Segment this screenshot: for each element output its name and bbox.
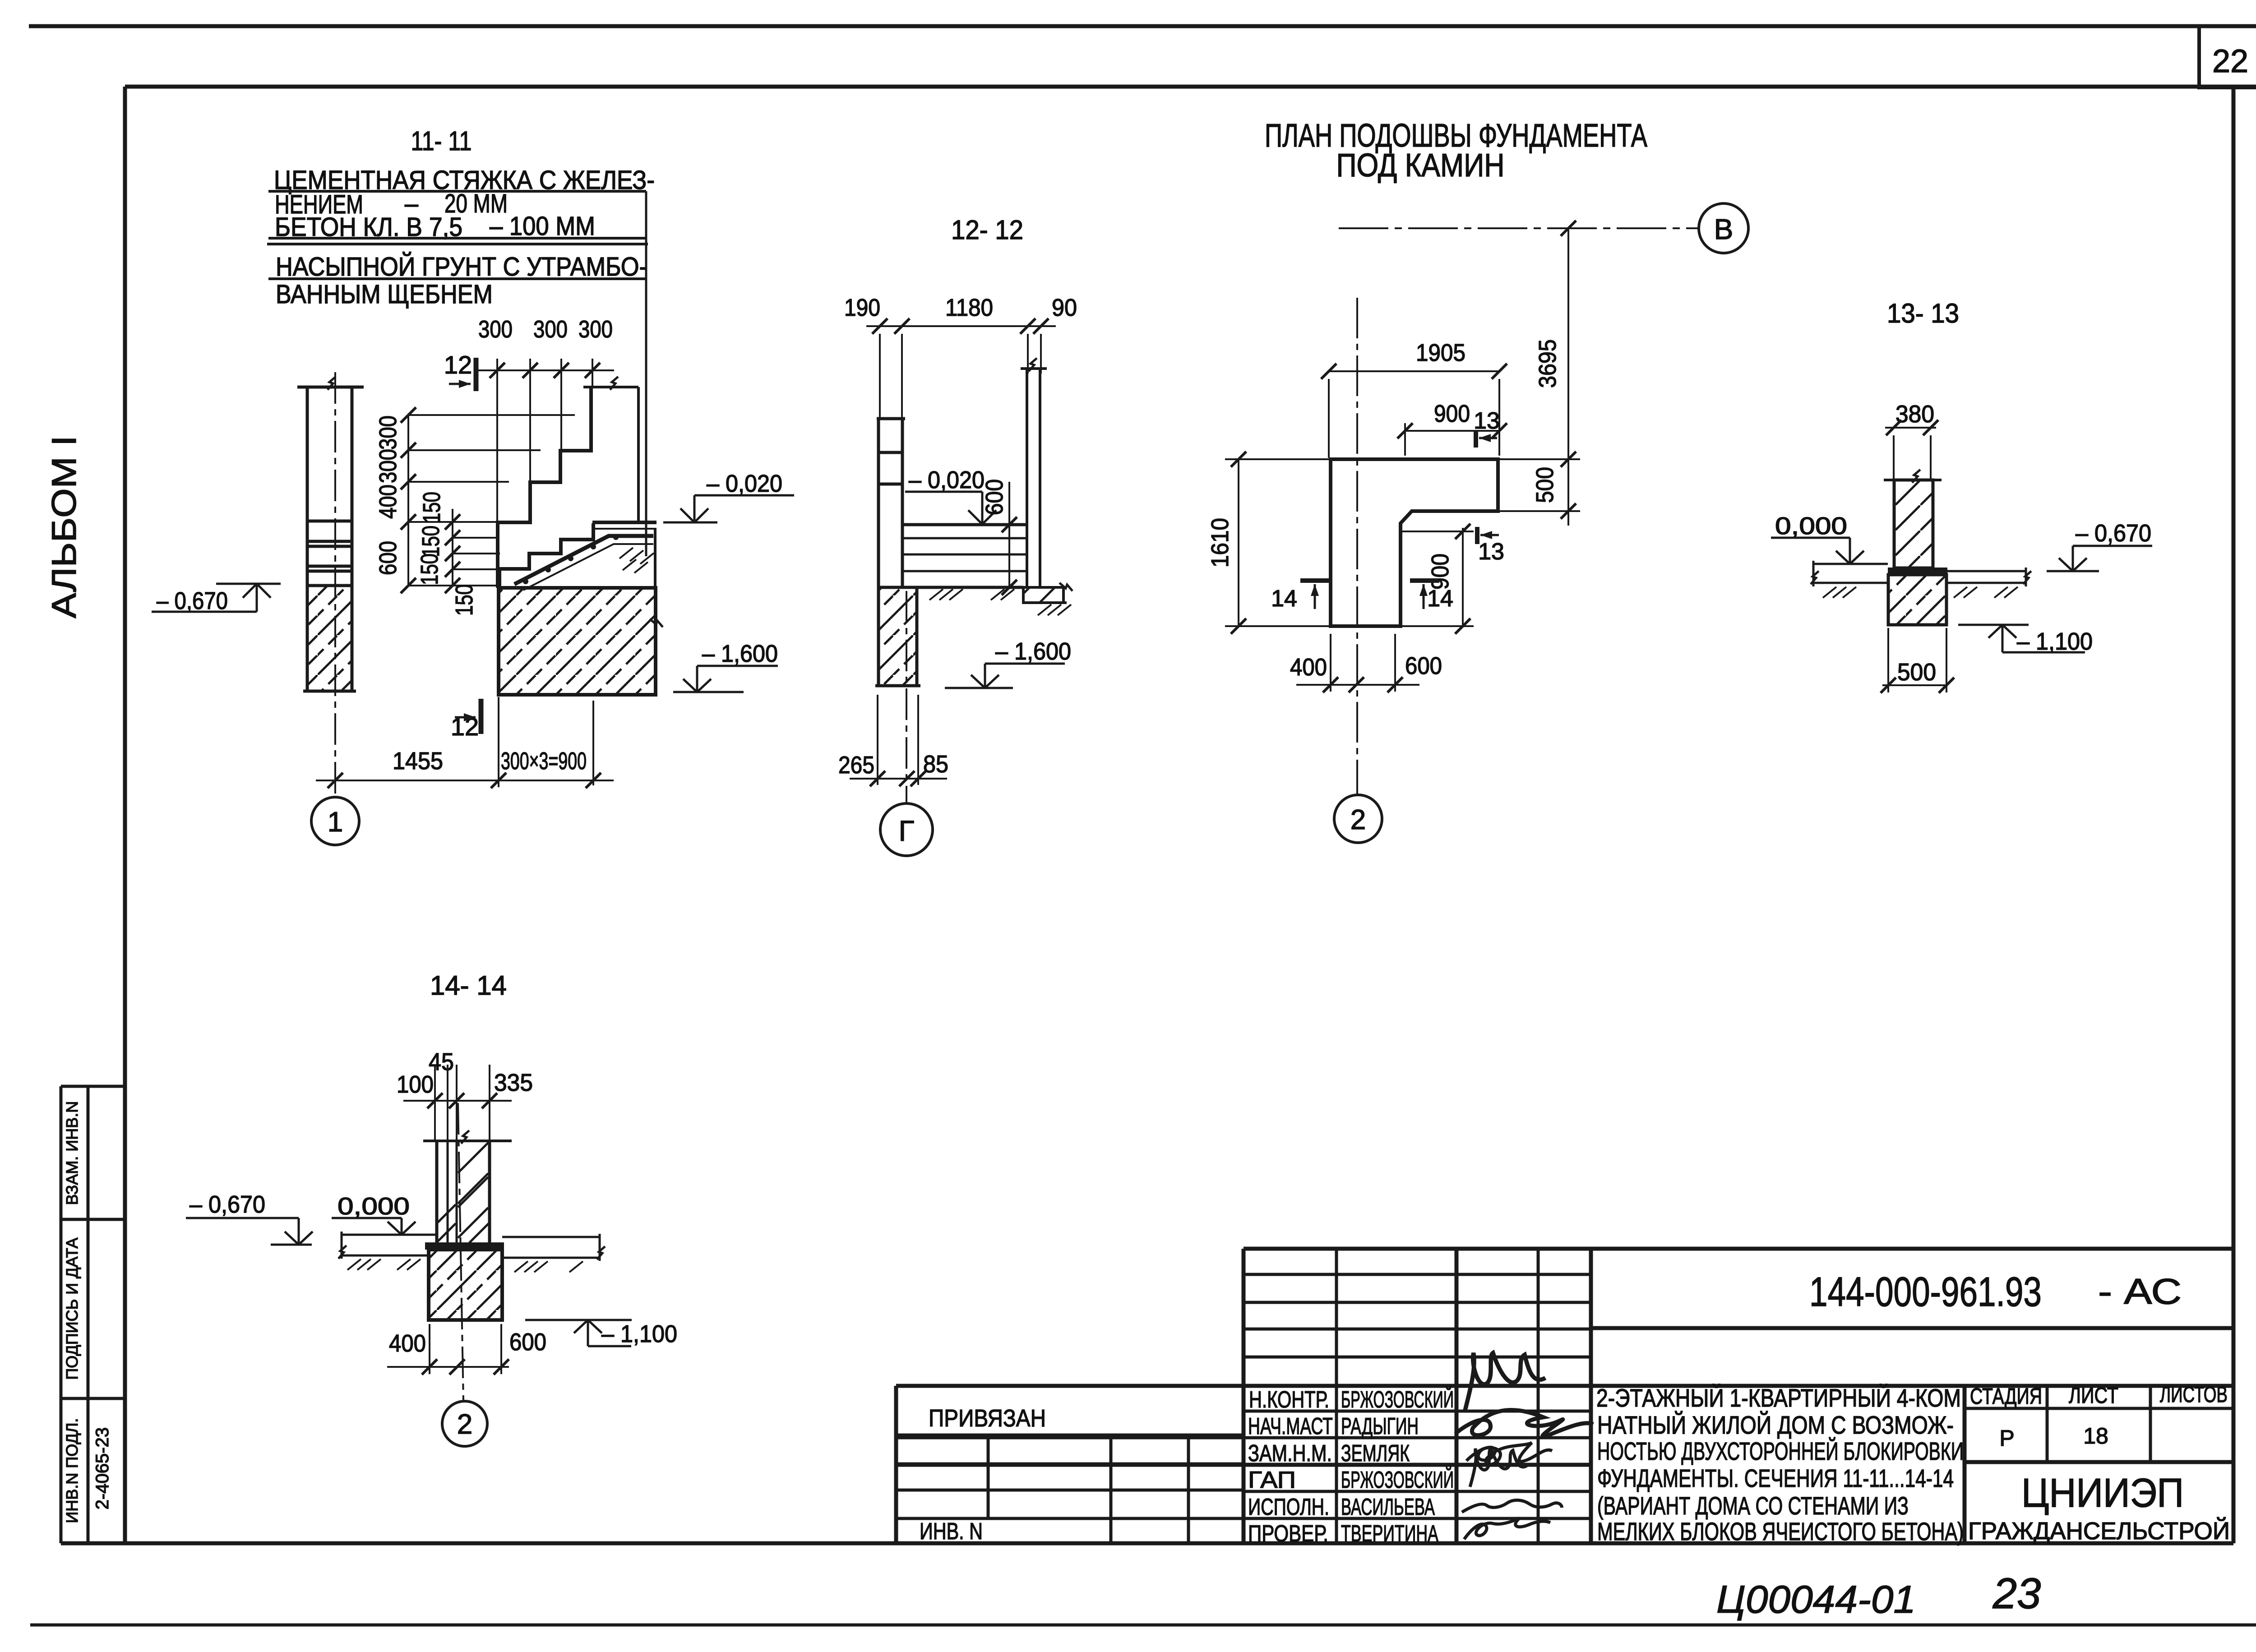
sloped reinforcement bar	[514, 535, 653, 590]
svg-text:150: 150	[417, 526, 444, 557]
level mark -1,100 (14-14)	[525, 1320, 677, 1347]
svg-text:150: 150	[418, 492, 445, 523]
level mark -0,670 left	[152, 584, 281, 614]
top dims 190 1180 90	[844, 294, 1077, 321]
foundation pad hatched	[499, 588, 656, 695]
vertical dim 600 (12-12)	[981, 479, 1017, 595]
svg-text:600: 600	[981, 479, 1008, 515]
svg-text:НАЧ.МАСТ: НАЧ.МАСТ	[1248, 1413, 1333, 1440]
svg-text:ИНВ.N ПОДЛ.: ИНВ.N ПОДЛ.	[63, 1418, 81, 1523]
svg-text:ИНВ. N: ИНВ. N	[920, 1518, 983, 1545]
ground line right 13-13	[1947, 568, 2026, 586]
svg-text:ГРАЖДАНСЕЛЬСТРОЙ: ГРАЖДАНСЕЛЬСТРОЙ	[1968, 1517, 2230, 1545]
svg-text:ВАСИЛЬЕВА: ВАСИЛЬЕВА	[1341, 1494, 1435, 1520]
level mark -0,670 (13-13)	[2047, 520, 2152, 571]
svg-text:12- 12: 12- 12	[951, 215, 1023, 245]
svg-text:300: 300	[578, 316, 613, 343]
note leader line	[645, 191, 647, 556]
pier axis line	[334, 372, 336, 797]
wall hatch 14-14	[438, 1143, 489, 1243]
foundation plan outline	[1331, 459, 1498, 626]
svg-text:ФУНДАМЕНТЫ. СЕЧЕНИЯ 11-11...14: ФУНДАМЕНТЫ. СЕЧЕНИЯ 11-11...14-14	[1597, 1464, 1954, 1492]
bottom dims 400/600 (plan)	[1290, 652, 1442, 681]
svg-text:300: 300	[374, 449, 402, 483]
svg-text:14: 14	[1271, 586, 1297, 612]
svg-text:14: 14	[1427, 586, 1453, 612]
right part of title block	[1591, 1247, 2233, 1251]
level mark -0,020 (12-12)	[905, 466, 996, 524]
svg-text:ВАННЫМ ЩЕБНЕМ: ВАННЫМ ЩЕБНЕМ	[276, 280, 493, 309]
level mark -1,600 (12-12)	[945, 638, 1071, 688]
soil hatch left segment	[929, 589, 1071, 615]
middle table row lines	[1244, 1273, 1591, 1276]
floor left 14-14	[341, 1232, 437, 1259]
wall 14-14	[437, 1141, 490, 1243]
svg-text:МЕЛКИХ БЛОКОВ ЯЧЕИСТОГО БЕТОНА: МЕЛКИХ БЛОКОВ ЯЧЕИСТОГО БЕТОНА)	[1597, 1517, 1964, 1546]
axis circle 2 (plan)	[1334, 795, 1382, 843]
left wall 12-12	[877, 419, 905, 587]
floor line left 13-13	[1813, 561, 1888, 586]
svg-text:600: 600	[509, 1329, 546, 1356]
dim 1905	[1321, 339, 1507, 458]
svg-text:190: 190	[844, 294, 880, 321]
level mark -1,600	[673, 640, 778, 692]
note text: cement screed	[274, 166, 655, 309]
dim 1610	[1207, 452, 1331, 634]
left wall foundation hatched 12-12	[875, 587, 920, 686]
dim 3695 vertical	[1534, 221, 1576, 526]
soil hatch 14-14	[347, 1259, 583, 1272]
svg-text:ПРИВЯЗАН: ПРИВЯЗАН	[929, 1405, 1046, 1432]
level mark -0,020	[663, 470, 794, 522]
wall right face line	[637, 387, 640, 522]
svg-text:ПРОВЕР.: ПРОВЕР.	[1248, 1521, 1328, 1547]
svg-text:300: 300	[533, 316, 568, 343]
svg-text:600: 600	[374, 541, 402, 575]
pier break mark	[328, 377, 336, 390]
svg-text:– 1,600: – 1,600	[995, 638, 1071, 665]
svg-text:ГАП: ГАП	[1248, 1467, 1296, 1493]
svg-text:380: 380	[1895, 401, 1934, 428]
level mark 0,000 (14-14)	[332, 1193, 416, 1235]
svg-text:300: 300	[374, 415, 402, 450]
footing 14-14	[425, 1246, 504, 1320]
level mark -1,100 (13-13)	[1958, 625, 2093, 655]
page number box	[2199, 26, 2256, 88]
soil hatch strokes above slope	[619, 548, 654, 573]
signatures squiggles	[1455, 1353, 1593, 1539]
svg-text:АЛЬБОМ I: АЛЬБОМ I	[45, 436, 83, 618]
svg-text:100: 100	[397, 1071, 434, 1098]
svg-text:500: 500	[1897, 659, 1936, 686]
svg-text:ПОД КАМИН: ПОД КАМИН	[1336, 148, 1505, 184]
svg-text:БРЖОЗОВСКИЙ: БРЖОЗОВСКИЙ	[1341, 1467, 1454, 1493]
svg-text:– 0,670: – 0,670	[157, 587, 228, 614]
svg-text:0,000: 0,000	[337, 1193, 410, 1220]
left outer ground 14-14	[271, 1244, 312, 1246]
svg-text:900: 900	[1427, 554, 1454, 590]
bottom dims 265 / 85	[838, 751, 948, 779]
svg-text:- АС: - АС	[2098, 1271, 2182, 1311]
bottom dims 400/600 (14-14)	[389, 1329, 546, 1357]
svg-text:90: 90	[1052, 294, 1077, 321]
svg-text:– 1,600: – 1,600	[702, 640, 778, 667]
wall 13-13 hatched	[1884, 470, 1942, 568]
right small footing hatched	[1023, 587, 1063, 603]
section cut marks 14	[1271, 581, 1330, 612]
section cut mark 13 bottom	[1477, 527, 1504, 565]
title block grid lines	[896, 1249, 2233, 1543]
middle signatures table outline	[1244, 1247, 1591, 1251]
svg-text:НАТНЫЙ ЖИЛОЙ ДОМ С ВОЗМОЖ-: НАТНЫЙ ЖИЛОЙ ДОМ С ВОЗМОЖ-	[1597, 1411, 1954, 1439]
svg-text:НОСТЬЮ ДВУХСТОРОННЕЙ БЛОКИРОВК: НОСТЬЮ ДВУХСТОРОННЕЙ БЛОКИРОВКИ	[1597, 1437, 1964, 1465]
svg-text:12: 12	[444, 351, 472, 379]
svg-text:22: 22	[2212, 43, 2248, 79]
section cut mark 13 top	[1474, 408, 1500, 448]
top dim 300 300 300	[478, 316, 613, 343]
svg-text:3695: 3695	[1534, 339, 1561, 388]
svg-text:1: 1	[328, 807, 343, 838]
axis B line	[1339, 227, 1698, 229]
svg-text:144-000-961.93: 144-000-961.93	[1809, 1269, 2042, 1315]
axis circle 1	[311, 797, 359, 845]
svg-text:Ц00044-01: Ц00044-01	[1716, 1578, 1916, 1621]
bottom dims 1455 / 300x3=900	[393, 748, 587, 775]
left pier wall	[297, 387, 364, 586]
svg-text:400: 400	[389, 1330, 426, 1357]
svg-text:– 1,100: – 1,100	[601, 1320, 677, 1347]
soil hatch 13-13	[1823, 587, 2018, 598]
dim 380	[1885, 401, 1938, 480]
left margin table	[61, 1086, 125, 1543]
svg-text:600: 600	[1405, 652, 1442, 679]
axis circle Г	[880, 803, 933, 856]
svg-text:– 0,670: – 0,670	[2076, 520, 2151, 547]
dim 900 vertical (notch)	[1401, 524, 1474, 634]
wall top cut line 14-14	[423, 1140, 512, 1142]
dim 900 top	[1397, 400, 1507, 456]
axis line 12-12	[906, 591, 907, 803]
frame right border	[2232, 87, 2236, 1543]
svg-text:Р: Р	[1999, 1426, 2014, 1451]
stage/sheet labels	[1970, 1382, 2228, 1451]
sheet outer top line	[29, 24, 2256, 28]
pier foundation hatched	[303, 586, 356, 691]
svg-text:Н.КОНТР.: Н.КОНТР.	[1249, 1387, 1329, 1413]
pad break mark	[650, 619, 663, 627]
svg-text:СТАДИЯ: СТАДИЯ	[1970, 1384, 2042, 1409]
svg-text:400: 400	[1290, 654, 1327, 681]
section cut mark 12 bottom	[451, 699, 481, 741]
svg-text:0,000: 0,000	[1775, 512, 1847, 540]
svg-text:ИСПОЛН.: ИСПОЛН.	[1248, 1494, 1329, 1520]
svg-text:ЗАМ.Н.М.: ЗАМ.Н.М.	[1248, 1440, 1332, 1467]
lower step profile	[499, 523, 593, 588]
svg-text:900: 900	[1434, 400, 1470, 427]
svg-text:НАСЫПНОЙ ГРУНТ С УТРАМБО-: НАСЫПНОЙ ГРУНТ С УТРАМБО-	[276, 252, 647, 281]
axis line 14-14	[458, 1103, 463, 1400]
svg-text:– 0,020: – 0,020	[707, 470, 782, 497]
floor slab right	[592, 522, 656, 588]
svg-text:– 1,100: – 1,100	[2017, 628, 2093, 655]
plan vertical axis	[1356, 298, 1358, 795]
dim 500 (13-13)	[1881, 628, 1954, 693]
svg-text:300×3=900: 300×3=900	[501, 748, 587, 775]
svg-text:13- 13: 13- 13	[1887, 298, 1959, 328]
svg-text:– 0,020: – 0,020	[909, 466, 985, 494]
signature table labels	[1248, 1386, 1454, 1547]
svg-text:ПОДПИСЬ И ДАТА: ПОДПИСЬ И ДАТА	[63, 1237, 81, 1380]
wall top cut line	[583, 386, 638, 388]
svg-text:300: 300	[478, 316, 513, 343]
left 150 dim chain	[416, 492, 478, 616]
svg-text:14- 14: 14- 14	[430, 970, 507, 1001]
ground right 14-14	[502, 1234, 600, 1261]
svg-text:500: 500	[1531, 467, 1558, 503]
level mark -0,670 (14-14)	[186, 1191, 313, 1245]
svg-text:ВЗАМ. ИНВ.N: ВЗАМ. ИНВ.N	[63, 1101, 81, 1205]
svg-text:11- 11: 11- 11	[411, 126, 472, 156]
svg-text:ТВЕРИТИНА: ТВЕРИТИНА	[1341, 1521, 1438, 1547]
svg-text:– 0,670: – 0,670	[190, 1191, 265, 1218]
note underlines and leader	[267, 191, 648, 556]
svg-text:2: 2	[457, 1409, 472, 1440]
svg-text:150: 150	[451, 584, 478, 616]
axis circle B	[1699, 203, 1748, 253]
svg-text:В: В	[1714, 213, 1734, 245]
svg-text:(ВАРИАНТ ДОМА СО СТЕНАМИ ИЗ: (ВАРИАНТ ДОМА СО СТЕНАМИ ИЗ	[1597, 1491, 1909, 1520]
frame top line	[125, 85, 2256, 89]
svg-text:23: 23	[1992, 1569, 2041, 1618]
svg-text:2-ЭТАЖНЫЙ 1-КВАРТИРНЫЙ 4-КОМ: 2-ЭТАЖНЫЙ 1-КВАРТИРНЫЙ 4-КОМ	[1596, 1384, 1961, 1412]
svg-text:2: 2	[1350, 804, 1366, 835]
svg-text:265: 265	[838, 752, 874, 779]
svg-text:18: 18	[2083, 1423, 2108, 1449]
svg-text:400: 400	[374, 485, 402, 519]
svg-text:БРЖОЗОВСКИЙ: БРЖОЗОВСКИЙ	[1341, 1386, 1454, 1413]
right wall 12-12	[1021, 369, 1047, 586]
svg-text:ЦНИИЭП: ЦНИИЭП	[2021, 1471, 2184, 1516]
stepped wall upper profile	[498, 387, 591, 588]
ground line 12-12	[878, 587, 1067, 603]
svg-text:Г: Г	[899, 815, 915, 847]
svg-text:РАДЫГИН: РАДЫГИН	[1341, 1413, 1419, 1440]
svg-text:1905: 1905	[1416, 339, 1465, 366]
frame bottom line	[61, 1541, 2233, 1546]
svg-text:1180: 1180	[945, 294, 993, 321]
svg-text:– 100 ММ: – 100 ММ	[490, 212, 595, 241]
project description	[1596, 1384, 1964, 1546]
svg-text:335: 335	[494, 1069, 533, 1096]
section cut mark 12 top	[444, 351, 476, 391]
footing 13-13	[1888, 571, 1947, 625]
left vertical dim chain 300/300/400/600	[374, 415, 402, 575]
dims 45 100 335	[397, 1048, 533, 1098]
svg-text:13: 13	[1478, 539, 1504, 565]
svg-text:ЛИСТ: ЛИСТ	[2069, 1383, 2118, 1408]
svg-text:1455: 1455	[393, 748, 443, 775]
axis circle 2 (14-14)	[442, 1401, 487, 1446]
svg-text:ЛИСТОВ: ЛИСТОВ	[2160, 1382, 2228, 1407]
svg-text:150: 150	[416, 554, 443, 585]
left attach table	[894, 1386, 898, 1543]
floor layers 12-12	[902, 525, 1027, 571]
svg-text:2-4065-23: 2-4065-23	[92, 1427, 112, 1509]
svg-text:1610: 1610	[1207, 518, 1234, 568]
svg-text:85: 85	[923, 751, 948, 778]
sheet outer bottom line	[30, 1624, 2256, 1627]
frame left border	[123, 87, 127, 1543]
level mark 0,000 (13-13)	[1771, 512, 1864, 564]
dim 500 right	[1498, 452, 1580, 519]
svg-text:ЗЕМЛЯК: ЗЕМЛЯК	[1341, 1440, 1410, 1467]
svg-text:13: 13	[1474, 408, 1500, 434]
